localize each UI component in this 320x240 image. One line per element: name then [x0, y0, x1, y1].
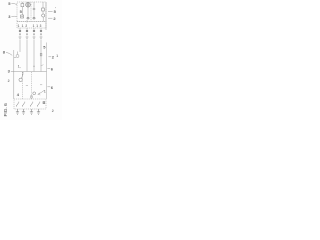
terminal label 1 [22, 24, 24, 28]
label 2 (bottom right) [52, 109, 54, 113]
label 1' (right top) [55, 4, 56, 8]
resistor R1 [21, 4, 24, 7]
junction on W3 [33, 66, 34, 67]
contact a1 [27, 17, 29, 19]
sensor B1 on W3 [33, 92, 36, 95]
svg-text:2: 2 [52, 109, 54, 113]
bus N1 [14, 71, 47, 73]
label 2 (left lower) [8, 79, 10, 83]
wire (R2 to L1) [42, 11, 44, 14]
contact tick on W2 [26, 85, 28, 87]
wire (R1 top lead) [21, 2, 23, 4]
capacitor C1 [33, 8, 35, 9]
switch contact S5 [37, 102, 40, 107]
coil blob on W6 [31, 96, 33, 98]
resistor R2 [42, 8, 45, 11]
svg-text:1: 1 [56, 54, 58, 58]
terminal label 1 [36, 24, 38, 28]
label 5 (feeder) [43, 45, 46, 50]
dashed wire W6 [30, 72, 32, 99]
switch contact S4 [30, 102, 33, 107]
relay K1 [21, 15, 24, 18]
label 5 (left upper) with leader [8, 1, 11, 6]
ground G3 [30, 109, 33, 114]
dashed wire W5 [21, 72, 23, 99]
switch S1 [14, 52, 19, 58]
dashed enclosure box U1 (top unit) [17, 2, 46, 22]
ground G2 [22, 109, 25, 114]
terminal label 1 [33, 24, 35, 28]
wire (lead of R2) [42, 2, 44, 8]
dashed terminal strip of U1 [17, 22, 46, 29]
connector P3 [33, 28, 36, 39]
svg-text:,: , [55, 4, 56, 8]
wire (M1 lead) [27, 7, 29, 17]
label 5 (inside U1) [20, 9, 23, 14]
ground G4 [37, 109, 40, 114]
label 8 (switch) with leader [3, 49, 6, 54]
receiver T1 [19, 72, 23, 82]
terminal label 1 [18, 24, 20, 28]
terminal label 3 [40, 24, 42, 28]
svg-text:1: 1 [36, 24, 38, 28]
label 6 (right upper-low) with leader [51, 66, 54, 71]
wire W2 [26, 39, 28, 71]
dashed divider inside U1 [30, 2, 32, 22]
leader arrow to B1 [38, 91, 44, 96]
ground G1 [16, 109, 19, 114]
connector P1 [19, 28, 22, 39]
svg-text:2: 2 [25, 24, 27, 28]
wire (right feeder) [46, 43, 48, 100]
svg-text:3: 3 [40, 24, 42, 28]
label 4 (above lower box) [17, 92, 20, 97]
contact a2 [33, 17, 35, 19]
svg-text:FIG. 6: FIG. 6 [3, 103, 9, 117]
dashed enclosure box U2 (bottom unit) [14, 99, 46, 109]
svg-text:1: 1 [33, 24, 35, 28]
lamp L1 [42, 14, 45, 17]
label 3 (left mid) with leader [8, 14, 11, 19]
wire (strip tap) [26, 20, 28, 23]
wire (right bus of U1) [45, 2, 47, 30]
wire (left feeder) [13, 50, 15, 99]
motor M1 [26, 2, 31, 7]
wire W1 [19, 39, 21, 52]
wire (R1 lead) [21, 7, 23, 15]
wire W4 [40, 39, 42, 71]
wire (C1 to contact a2) [33, 10, 35, 17]
connector P4 [40, 28, 43, 39]
leader tick to W4 [41, 65, 44, 66]
svg-text:1,: 1, [18, 65, 21, 69]
fuse F1 on W4 [40, 53, 42, 56]
wire (L1 lead) [42, 17, 44, 21]
terminal label 2 [25, 24, 27, 28]
svg-text:2: 2 [8, 79, 10, 83]
contact tick on W4 [40, 84, 42, 86]
svg-text:1: 1 [44, 89, 46, 93]
wire W3 [33, 39, 35, 71]
svg-text:1: 1 [22, 24, 24, 28]
wire (drop to capacitor C1) [33, 2, 35, 8]
label 1 (wire W1 end) [18, 65, 21, 69]
label 2 (right) with leader [53, 16, 56, 21]
figure label FIG. 6 [3, 103, 9, 117]
switch contact S3 [22, 102, 25, 107]
label 3 (left bus) with leader [8, 69, 11, 74]
switch contact S2 [16, 102, 19, 107]
svg-text:1: 1 [18, 24, 20, 28]
coil blob in U2 [43, 102, 45, 104]
label 6 (right lower) with leader [51, 85, 54, 90]
label 21 (right mid) with leader [52, 54, 55, 59]
connector P2 [26, 28, 29, 39]
label 5 (right) with leader [54, 9, 57, 14]
label 1 (above arrow) [44, 89, 46, 93]
